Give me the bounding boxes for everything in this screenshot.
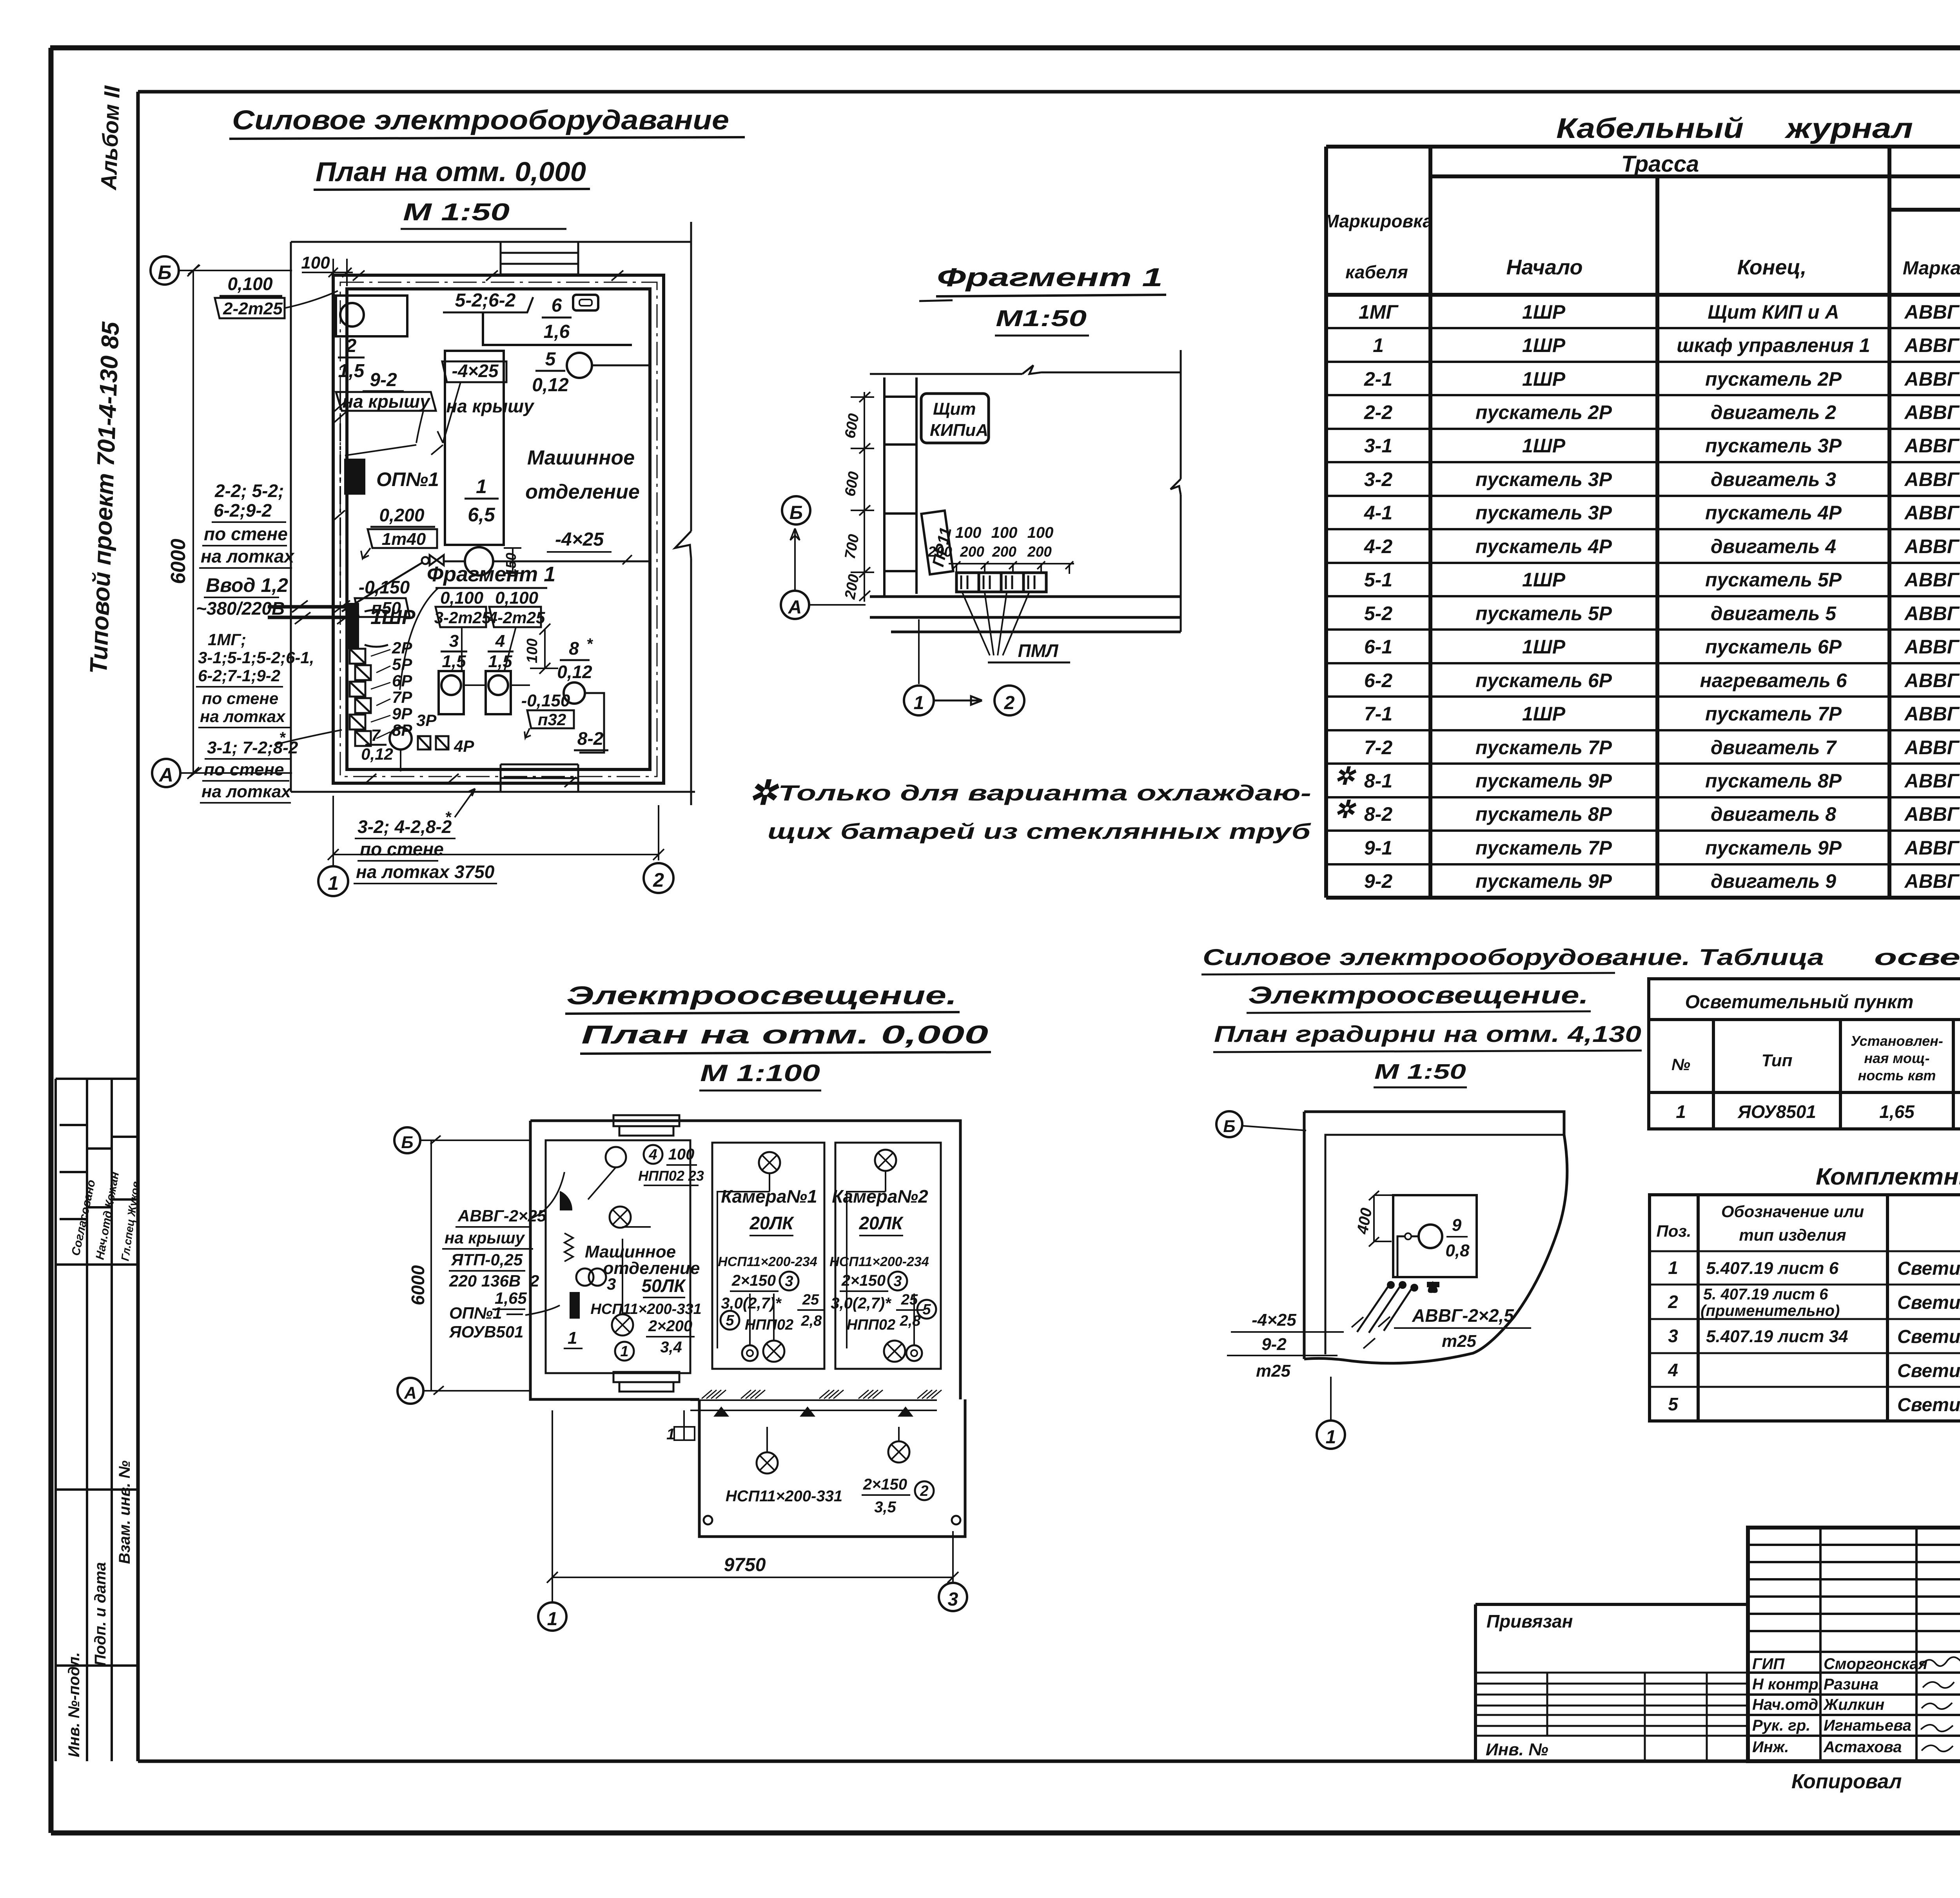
svg-text:Подп. и дата: Подп. и дата [92,1562,109,1666]
svg-text:9-2: 9-2 [370,370,397,390]
svg-text:по стене: по стене [360,839,444,859]
svg-text:М 1:50: М 1:50 [403,199,510,226]
svg-text:ЯТП-0,25: ЯТП-0,25 [451,1250,523,1269]
svg-text:0,12: 0,12 [361,745,393,763]
axis node B (fragment) [782,496,810,524]
lighting plan titles [565,981,991,1091]
svg-text:План градирни на отм. 4,130: План градирни на отм. 4,130 [1214,1022,1641,1047]
svg-text:по стене: по стене [204,524,288,544]
svg-text:4-1: 4-1 [1364,502,1392,524]
bottom label 3-2;4-2,8-2 [354,789,497,884]
svg-text:АВВГ: АВВГ [1904,435,1960,457]
fragment bottom wall [870,597,1181,632]
svg-text:Светильник НСП11×200-331 на кр: Светильник НСП11×200-331 на крюке [1897,1292,1960,1313]
svg-text:Сморгонская: Сморгонская [1824,1655,1927,1673]
gradirnya inner wall [1325,1135,1564,1354]
lamp x7 tower left [757,1452,778,1473]
tower corner posts [704,1516,960,1524]
left labels plan2 [442,1172,564,1341]
svg-text:пускатель 3Р: пускатель 3Р [1705,435,1842,457]
callout 0,100 4-2t25 [488,588,545,672]
lamp x5 camera1 bottom [763,1341,784,1362]
axis node B (gradirnya) [1216,1111,1306,1137]
svg-text:200: 200 [992,544,1016,560]
svg-text:АВВГ-2×2,5: АВВГ-2×2,5 [1412,1305,1514,1326]
callout 0,100 / 2-2t25 [215,274,338,318]
svg-text:пускатель 7Р: пускатель 7Р [1475,837,1612,859]
svg-text:6Р: 6Р [392,671,412,690]
svg-text:3-2; 4-2,8-2: 3-2; 4-2,8-2 [358,817,452,837]
svg-text:пускатель 4Р: пускатель 4Р [1475,535,1612,557]
svg-text:✲: ✲ [1334,796,1357,823]
svg-text:1,5: 1,5 [338,361,365,381]
svg-text:двигатель 9: двигатель 9 [1711,870,1836,892]
svg-text:1ШР: 1ШР [370,606,416,629]
wall lamp camera1 [742,1345,758,1361]
svg-text:5Р: 5Р [392,655,412,673]
label 8-2 [574,728,608,750]
svg-text:0,200: 0,200 [379,505,425,525]
pos 2 tower [915,1481,934,1500]
svg-text:✲: ✲ [749,774,779,812]
svg-text:на лотках: на лотках [201,546,295,566]
svg-text:пускатель 8Р: пускатель 8Р [1475,803,1612,825]
svg-text:✲: ✲ [1334,763,1357,790]
svg-text:НПП02 23: НПП02 23 [638,1168,704,1184]
svg-text:2: 2 [1668,1292,1678,1312]
svg-text:АВВГ: АВВГ [1904,703,1960,725]
title: power equipment [229,105,745,229]
svg-text:3,5: 3,5 [874,1499,896,1516]
fragment dim line with ticks [949,561,1074,574]
room wires plan2 [588,1167,914,1452]
svg-text:АВВГ: АВВГ [1904,602,1960,624]
plan1 exterior stair top [501,242,578,274]
cable journal row lines [1326,328,1960,864]
svg-text:7-2: 7-2 [1364,737,1392,758]
svg-text:*: * [445,809,452,826]
svg-text:НПП02: НПП02 [847,1317,895,1333]
callout 0,200 / 1t40 [361,505,437,559]
svg-text:3,0(2,7)*: 3,0(2,7)* [721,1295,782,1312]
svg-text:Рук. гр.: Рук. гр. [1752,1717,1810,1734]
svg-text:1ШР: 1ШР [1522,301,1566,323]
starter motor circle 0,12 [361,726,412,771]
svg-text:5-2: 5-2 [1364,602,1392,624]
labels -4x25 9-2 t25 [1227,1310,1344,1381]
svg-text:1: 1 [328,872,339,894]
svg-text:5: 5 [1668,1394,1679,1414]
svg-text:АВВГ: АВВГ [1904,870,1960,892]
svg-text:20ЛК: 20ЛК [858,1213,904,1233]
cable journal table [1326,147,1960,898]
svg-text:т25: т25 [1256,1361,1291,1381]
svg-text:пускатель 8Р: пускатель 8Р [1705,770,1842,792]
machine room labels [585,1242,702,1356]
svg-text:Игнатьева: Игнатьева [1824,1717,1911,1734]
label -4x25 right [547,529,632,564]
svg-text:100: 100 [301,253,330,272]
svg-text:Б: Б [1223,1117,1235,1136]
equipment 4 [464,631,530,714]
svg-text:т25: т25 [1442,1332,1477,1351]
svg-text:Ввод 1,2: Ввод 1,2 [206,574,288,596]
svg-text:КИПиА: КИПиА [930,421,988,440]
album label vertical [96,85,124,191]
svg-text:7Р: 7Р [392,688,412,706]
cable shelf band [690,1390,942,1410]
svg-text:на лотках: на лотках [201,782,291,801]
svg-text:9Р: 9Р [392,704,412,723]
svg-text:4-2т25: 4-2т25 [488,608,545,627]
svg-text:9750: 9750 [724,1555,766,1575]
svg-text:1: 1 [1668,1257,1678,1278]
fragment right line with break [1171,350,1181,632]
svg-text:~380/220В: ~380/220В [196,598,285,619]
svg-text:Привязан: Привязан [1486,1611,1573,1631]
pos 5 camera2 [917,1300,936,1319]
svg-text:Трасса: Трасса [1621,151,1699,177]
svg-text:1: 1 [547,1609,558,1629]
fragment left dim chain [842,392,874,602]
dim 400 [1354,1191,1396,1247]
svg-text:Фрагмент 1: Фрагмент 1 [937,263,1163,292]
label -4x25 na kryshu [437,361,535,443]
plan2 building outline [530,1121,965,1537]
axis node A (plan1) [152,759,292,787]
plan1 building thin outline [291,242,695,792]
axis node 3 (plan2) [939,1583,967,1611]
PML leaders [962,593,1070,662]
svg-text:Электроосвещение.: Электроосвещение. [566,981,957,1010]
svg-text:1МГ: 1МГ [1359,301,1399,323]
cable journal headers [1324,151,1960,295]
equipment 3 [439,631,467,714]
title block outline [1748,1528,1960,1761]
machine unit 1 [445,351,650,576]
svg-text:Инв. №-подл.: Инв. №-подл. [65,1652,83,1757]
svg-text:1ШР: 1ШР [1522,368,1566,390]
svg-text:пускатель 9Р: пускатель 9Р [1475,870,1612,892]
svg-text:9-2: 9-2 [1364,870,1392,892]
svg-text:100: 100 [1027,524,1054,541]
title block grid [1748,1528,1960,1761]
svg-text:7: 7 [371,726,381,744]
dim 100 top [301,253,353,286]
svg-text:двигатель 5: двигатель 5 [1711,602,1837,624]
svg-text:1: 1 [1326,1427,1336,1448]
svg-text:220 136В: 220 136В [449,1272,521,1290]
svg-text:1ШР: 1ШР [1522,636,1566,658]
svg-text:Маркировка: Маркировка [1324,211,1432,231]
svg-text:пускатель 7Р: пускатель 7Р [1705,703,1842,725]
pos 4 [644,1145,662,1164]
svg-text:5.407.19 лист 6: 5.407.19 лист 6 [1706,1259,1839,1278]
svg-text:Поз.: Поз. [1657,1222,1691,1240]
svg-text:6-2;9-2: 6-2;9-2 [214,500,272,521]
svg-text:8-2: 8-2 [577,728,604,749]
svg-text:отделение: отделение [525,481,640,503]
svg-text:Только для варианта охлаждаю-: Только для варианта охлаждаю- [778,780,1311,805]
svg-text:на крышу: на крышу [446,396,535,416]
svg-text:АВВГ: АВВГ [1904,569,1960,591]
left margin approval stamp [56,1079,142,1265]
svg-text:пускатель 5Р: пускатель 5Р [1705,569,1842,591]
gradirnya lamp 9/0,8 [1397,1216,1470,1277]
motor 8 [557,635,604,753]
plan1 wall inner [347,289,650,769]
svg-text:Осветительный пункт: Осветительный пункт [1685,992,1914,1013]
svg-text:20ЛК: 20ЛК [749,1213,794,1233]
svg-text:1ШР: 1ШР [1522,569,1566,591]
svg-text:АВВГ: АВВГ [1904,770,1960,792]
svg-text:2,8: 2,8 [801,1313,822,1329]
svg-text:пускатель 9Р: пускатель 9Р [1475,770,1612,792]
camera 2 room [835,1143,941,1369]
svg-text:2×200: 2×200 [648,1317,692,1335]
camera1 labels [718,1186,825,1333]
svg-text:Кабельный: Кабельный [1556,113,1744,144]
svg-text:Б: Б [158,261,171,283]
svg-text:2×150: 2×150 [863,1476,907,1493]
svg-text:4: 4 [1668,1360,1678,1380]
svg-text:кабеля: кабеля [1345,262,1408,282]
axis node B (plan1) [151,256,292,285]
svg-text:Альбом II: Альбом II [96,85,124,191]
svg-text:Б: Б [401,1133,413,1152]
svg-text:Светильник НСП11×200-234 на по: Светильник НСП11×200-234 на подвесе [1897,1326,1960,1347]
svg-text:Щит КИП и А: Щит КИП и А [1708,301,1839,323]
camera2 labels [829,1186,929,1333]
svg-text:1МГ;: 1МГ; [208,630,246,649]
svg-text:1: 1 [476,475,487,497]
label AVVG-2x2,5 t25 [1394,1305,1531,1351]
svg-text:2-2т25: 2-2т25 [223,299,283,318]
svg-text:9: 9 [1452,1216,1462,1235]
svg-text:0,12: 0,12 [532,375,569,396]
svg-text:0,100: 0,100 [440,588,484,608]
svg-text:М 1:50: М 1:50 [1374,1060,1466,1083]
room label: machine hall [525,446,640,503]
svg-text:по стене: по стене [204,760,284,779]
svg-text:Жилкин: Жилкин [1823,1696,1884,1713]
svg-text:щих батарей из стеклянных труб: щих батарей из стеклянных труб [768,819,1311,844]
ceiling lamp NPP02 [606,1147,626,1167]
svg-text:2: 2 [920,1483,928,1499]
left label group 2-2;5-2;6-2;9-2 [199,481,295,568]
pos 5 camera1 [720,1311,739,1330]
svg-text:План на отм. 0,000: План на отм. 0,000 [581,1020,988,1049]
svg-text:100: 100 [955,524,982,541]
lamp x6 camera2 bottom [884,1341,905,1362]
PR11 box [921,511,955,575]
svg-text:Светильник НСП11×200-331 на кр: Светильник НСП11×200-331 на крюке [1897,1258,1960,1279]
svg-text:НПП02: НПП02 [745,1317,793,1333]
svg-text:пускатель 3Р: пускатель 3Р [1475,502,1612,524]
svg-text:100: 100 [991,524,1018,541]
transformer symbol [576,1268,616,1293]
dimension 6000 (plan1 height) [167,265,199,779]
svg-text:Силовое электрооборудавание: Силовое электрооборудавание [232,105,729,135]
svg-text:двигатель 7: двигатель 7 [1711,737,1837,758]
svg-text:1т40: 1т40 [382,530,426,549]
svg-text:двигатель 2: двигатель 2 [1711,401,1836,423]
svg-text:пускатель 7Р: пускатель 7Р [1475,737,1612,758]
svg-text:Тип: Тип [1762,1051,1793,1070]
svg-text:1ШР: 1ШР [1522,334,1566,356]
wire drop to wall (9-2) [340,392,443,598]
wall lamp camera2 [906,1345,922,1361]
dim 100 vertical [524,624,558,674]
svg-text:1: 1 [914,693,924,713]
axis node 1 (plan1) [318,866,348,896]
privyazan block [1475,1604,1748,1761]
svg-text:АВВГ: АВВГ [1904,737,1960,758]
svg-text:9-2: 9-2 [1261,1335,1287,1354]
svg-text:Машинное: Машинное [527,446,635,469]
lamp x3 machine top [610,1207,631,1228]
svg-text:2: 2 [530,1272,539,1290]
room partition top-right [483,312,632,345]
svg-text:50ЛК: 50ЛК [641,1276,686,1296]
callout -0,150 / P32 [521,691,574,738]
svg-text:Нач.отд: Нач.отд [1752,1696,1818,1713]
plan1 section break line right [675,222,691,805]
camera 1 room [712,1143,824,1369]
svg-text:Инж.: Инж. [1752,1738,1789,1756]
label 6/1,6 and connector [542,295,598,342]
svg-text:5: 5 [726,1312,734,1329]
KIPiA panel [921,394,989,443]
svg-text:8-2: 8-2 [1364,803,1392,825]
svg-text:по стене: по стене [202,689,278,708]
fragment callout on plan [400,563,555,690]
plan1 exterior stair bottom [501,764,578,792]
plan1 wall outer [333,275,664,783]
cable entry (vvod) [268,601,353,624]
svg-text:3: 3 [785,1273,793,1290]
svg-text:5. 407.19 лист 6: 5. 407.19 лист 6 [1703,1286,1828,1303]
svg-text:пускатель 5Р: пускатель 5Р [1475,602,1612,624]
svg-text:25: 25 [901,1292,918,1308]
svg-text:2: 2 [346,336,357,356]
svg-text:100: 100 [524,639,541,663]
svg-text:АВВГ: АВВГ [1904,535,1960,557]
svg-text:пускатель 2Р: пускатель 2Р [1705,368,1842,390]
svg-text:Б: Б [789,503,803,523]
axis node 1 (fragment) [904,686,934,715]
svg-text:1,65: 1,65 [1879,1101,1915,1122]
svg-text:6,5: 6,5 [468,504,495,526]
svg-text:АВВГ: АВВГ [1904,636,1960,658]
svg-text:2: 2 [1004,693,1015,713]
svg-text:Копировал: Копировал [1791,1770,1902,1793]
svg-text:пускатель 3Р: пускатель 3Р [1475,468,1612,490]
label 9-2 na kryshu [336,370,436,443]
svg-text:нагреватель 6: нагреватель 6 [1700,670,1847,691]
komplekt headers [1657,1202,1960,1244]
svg-text:3: 3 [449,631,459,651]
svg-text:на крышу: на крышу [445,1228,526,1247]
svg-text:9-1: 9-1 [1364,837,1392,859]
lamp x2 camera2 top [875,1150,896,1171]
cable journal title [1556,113,1913,144]
svg-text:ная мощ-: ная мощ- [1864,1050,1929,1066]
svg-text:2×150: 2×150 [731,1272,776,1289]
komplekt rows [1668,1257,1960,1415]
svg-text:200: 200 [1027,544,1052,560]
plan2 bottom door [613,1372,679,1392]
pos 3 camera1 [780,1272,799,1290]
svg-text:пускатель 2Р: пускатель 2Р [1475,401,1612,423]
device room top-left [336,296,407,336]
svg-text:ГИП: ГИП [1752,1655,1785,1673]
cable journal rows [1334,301,1960,892]
svg-text:АВВГ: АВВГ [1904,803,1960,825]
svg-text:Инв. №: Инв. № [1486,1740,1548,1759]
svg-text:3-2: 3-2 [1364,468,1392,490]
svg-text:на крышу: на крышу [342,391,431,412]
svg-text:6000: 6000 [167,539,190,584]
svg-text:НСП11×200-234: НСП11×200-234 [829,1254,929,1269]
svg-text:1,5: 1,5 [442,652,466,671]
svg-text:3: 3 [607,1275,616,1293]
svg-text:Электроосвещение.: Электроосвещение. [1248,982,1588,1009]
fragment 1 title [919,263,1166,336]
svg-text:Обозначение или: Обозначение или [1721,1202,1864,1221]
fragment axis drop line [918,619,920,684]
svg-text:Фрагмент 1: Фрагмент 1 [427,563,555,586]
signature rows [1752,1655,1960,1756]
svg-text:0,12: 0,12 [557,662,592,682]
panel ShchO black [564,1292,583,1348]
svg-text:АВВГ: АВВГ [1904,502,1960,524]
svg-text:2-2; 5-2;: 2-2; 5-2; [214,481,284,501]
svg-text:2×150: 2×150 [841,1272,886,1289]
junction marks near bottom door [666,1406,913,1443]
svg-text:Начало: Начало [1506,256,1583,279]
bottom axis dim line [328,796,664,866]
plan1 wall centerline [340,282,657,777]
svg-text:Астахова: Астахова [1823,1738,1902,1756]
svg-text:А: А [404,1383,417,1403]
callout 0,100 3-2t25 [434,588,491,672]
svg-text:НСП11×200-331: НСП11×200-331 [726,1488,842,1505]
pos 3 camera2 [888,1272,907,1290]
svg-text:3: 3 [948,1589,958,1610]
svg-text:ЯОУВ501: ЯОУВ501 [449,1323,524,1341]
svg-text:2,8: 2,8 [900,1313,921,1329]
wall crossing ticks plan1 [332,270,623,787]
svg-text:3,4: 3,4 [660,1339,682,1356]
svg-text:Марка: Марка [1903,258,1960,279]
label 2/1,5 [338,336,365,381]
lighting points table [1649,979,1960,1129]
svg-text:План на отм. 0,000: План на отм. 0,000 [316,156,586,187]
svg-text:1: 1 [1676,1101,1686,1122]
svg-text:Взам. инв. №: Взам. инв. № [116,1461,133,1564]
svg-text:двигатель 3: двигатель 3 [1711,468,1836,490]
svg-text:Комплектные узлы: Комплектные узлы [1816,1163,1960,1190]
svg-text:ОП№1 —: ОП№1 — [449,1304,523,1322]
svg-text:осветительных пунктов: осветительных пунктов [1874,945,1960,970]
plan2 top door [613,1115,679,1136]
svg-text:5: 5 [545,349,556,370]
svg-text:2: 2 [653,869,664,891]
axis node 2 (plan1) [644,863,673,893]
svg-text:ОП№1: ОП№1 [376,468,439,490]
left label group 3-1;7-2;8-2 [200,729,342,803]
